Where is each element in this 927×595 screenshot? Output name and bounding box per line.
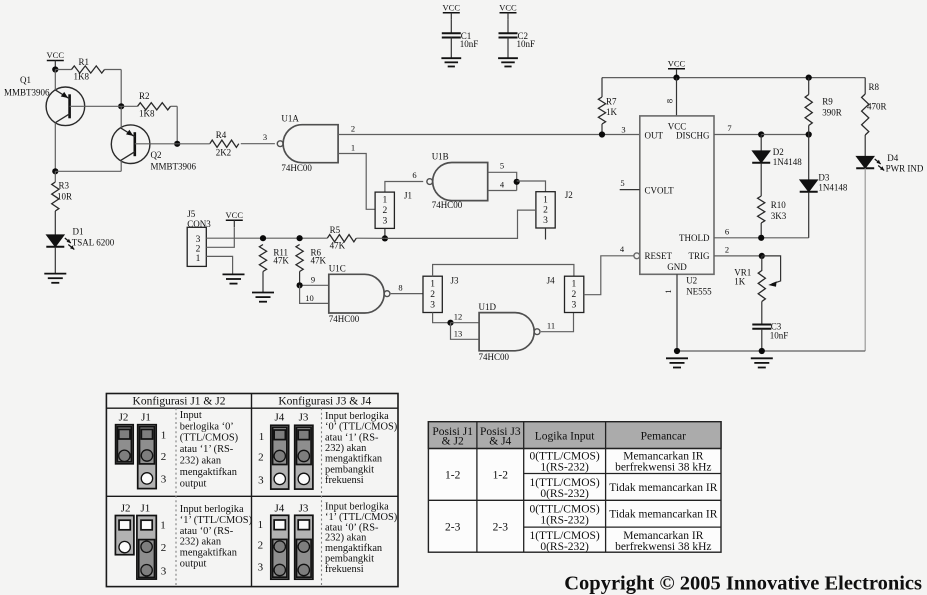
svg-text:TSAL 6200: TSAL 6200 — [72, 238, 115, 248]
diode D1 TSAL 6200 (IR LED) — [46, 227, 114, 250]
jumper graphic J2 cap on 1-2 (row1) — [116, 425, 134, 464]
svg-text:Input berlogika: Input berlogika — [325, 502, 389, 513]
svg-text:1K8: 1K8 — [139, 109, 155, 119]
svg-text:232) akan: 232) akan — [325, 443, 367, 454]
node GND/rail — [674, 348, 680, 354]
pin 12 label — [454, 312, 463, 322]
svg-text:47K: 47K — [273, 256, 289, 266]
svg-text:VCC: VCC — [668, 58, 686, 68]
svg-text:Input berlogika: Input berlogika — [180, 504, 244, 515]
node TRIG/VR1 — [759, 253, 765, 259]
resistor R5 47K — [327, 225, 356, 251]
wire Q2 collector down — [120, 161, 122, 172]
svg-text:2: 2 — [258, 452, 264, 464]
node B (R2/Q2-base/R4) — [174, 141, 180, 147]
wire U1A pin 1 to J1 pin 2 — [338, 154, 375, 210]
ground (below R11) — [252, 293, 274, 302]
svg-text:& J2: & J2 — [442, 436, 464, 448]
svg-text:R3: R3 — [59, 181, 70, 191]
power VCC net symbol (C1) — [443, 2, 461, 20]
svg-text:Q1: Q1 — [20, 75, 31, 85]
svg-text:D1: D1 — [73, 227, 84, 237]
wire node to R3 — [54, 171, 56, 182]
svg-text:470R: 470R — [867, 102, 887, 112]
wire VCC rail — [602, 76, 865, 78]
node J3.3/U1D junction — [447, 320, 453, 326]
pin 3 label — [263, 132, 267, 142]
svg-text:D4: D4 — [887, 153, 898, 163]
svg-text:1N4148: 1N4148 — [818, 183, 847, 193]
wire C2 to ground — [507, 38, 509, 59]
wire R8 to D4 — [864, 135, 866, 156]
svg-text:CON3: CON3 — [187, 219, 211, 229]
svg-text:R9: R9 — [822, 97, 833, 107]
power VCC net symbol (C2) — [499, 2, 517, 20]
svg-text:THOLD: THOLD — [679, 233, 710, 243]
svg-text:J2: J2 — [565, 190, 573, 200]
power VCC net symbol (555) — [668, 58, 686, 75]
node R9/D3 junction — [806, 131, 812, 137]
cell pemancar row4 — [615, 530, 711, 553]
svg-text:2: 2 — [351, 124, 355, 134]
wire R4 to U1A output pin 3 — [241, 143, 275, 145]
jumper J1 3-pin header — [375, 191, 412, 229]
svg-text:MMBT3906: MMBT3906 — [4, 88, 50, 98]
svg-text:R8: R8 — [869, 82, 880, 92]
svg-text:mengaktifkan: mengaktifkan — [325, 543, 383, 554]
cell logika row1 — [529, 451, 599, 474]
cell posisi 2-3 / 2-3 — [445, 522, 508, 534]
svg-text:Input: Input — [180, 410, 202, 421]
svg-text:232) akan: 232) akan — [180, 537, 222, 548]
jumper graphic J3 cap on 2-3 (row2) — [295, 515, 313, 579]
svg-text:1-2: 1-2 — [493, 470, 509, 482]
svg-text:‘1’ (TTL/CMOS): ‘1’ (TTL/CMOS) — [180, 515, 252, 526]
node R10/THOLD junction — [758, 235, 764, 241]
svg-text:2K2: 2K2 — [216, 148, 232, 158]
resistor R4 2K2 — [210, 130, 239, 158]
svg-text:3: 3 — [383, 217, 388, 227]
svg-text:berlogika ‘0’: berlogika ‘0’ — [180, 421, 234, 432]
cell posisi 1-2 / 1-2 — [445, 470, 508, 482]
pin 11 label — [547, 321, 555, 331]
svg-text:6: 6 — [725, 227, 729, 237]
svg-text:232) akan: 232) akan — [325, 533, 367, 544]
wire TRIG node to VR1 — [761, 256, 763, 271]
svg-text:D3: D3 — [818, 173, 829, 183]
wire C3 to ground node — [761, 329, 763, 351]
NAND gate U1D 74HC00 — [479, 302, 540, 362]
wire J5 pin 3 to R5 net — [206, 237, 385, 239]
wire J3 pin 3 to U1D inputs — [433, 313, 451, 323]
svg-text:pembangkit: pembangkit — [325, 554, 374, 565]
ground (below 555 GND) — [666, 358, 688, 367]
svg-text:J5: J5 — [187, 209, 196, 219]
svg-text:berfrekwensi 38 kHz: berfrekwensi 38 kHz — [615, 462, 711, 474]
svg-text:10: 10 — [305, 293, 314, 303]
svg-text:3K3: 3K3 — [771, 211, 787, 221]
labels J2 J1 (row2) — [121, 503, 151, 515]
svg-text:J3: J3 — [451, 276, 460, 286]
header Posisi J1 & J2 — [432, 426, 473, 448]
labels J4 J3 (row1) — [275, 412, 309, 424]
wire D4 to ground rail — [864, 168, 866, 351]
header Posisi J3 & J4 — [480, 426, 521, 448]
svg-text:Copyright © 2005 Innovative El: Copyright © 2005 Innovative Electronics — [564, 573, 922, 595]
jumper graphic J1 cap on 1-2 (row1) — [138, 425, 157, 489]
svg-text:frekuensi: frekuensi — [325, 564, 364, 575]
svg-text:3: 3 — [263, 132, 267, 142]
diode D2 1N4148 — [752, 147, 802, 167]
wire VCC to J5 pin 2 — [206, 227, 234, 247]
svg-text:11: 11 — [547, 321, 555, 331]
wire U1C output pin 8 to J3 pin 2 — [391, 293, 423, 295]
cell logika row3 — [529, 504, 599, 527]
svg-text:VCC: VCC — [47, 50, 65, 60]
pin 6 label — [725, 227, 729, 237]
svg-text:atau ‘0’ (RS-: atau ‘0’ (RS- — [325, 522, 379, 533]
wire R3 to D1 — [54, 211, 56, 235]
wire VCC to C2 — [507, 20, 509, 33]
ground (below D1) — [44, 274, 66, 283]
wire node A to R2 — [121, 105, 137, 107]
svg-text:74HC00: 74HC00 — [479, 352, 510, 362]
wire node to U1D pin 13 — [451, 323, 480, 340]
svg-text:3: 3 — [161, 474, 167, 486]
svg-text:1(RS-232): 1(RS-232) — [540, 515, 589, 527]
svg-text:8: 8 — [665, 99, 675, 103]
wire DISCHG pin 7 to D2 node — [714, 134, 761, 136]
svg-text:J2: J2 — [121, 503, 131, 515]
node VCC/pin8 — [673, 75, 679, 81]
ground (below J5 pin1) — [223, 274, 245, 283]
svg-text:2: 2 — [161, 451, 167, 463]
timer U2 NE555 body — [640, 116, 714, 297]
svg-text:GND: GND — [667, 262, 687, 272]
capacitor C3 10nF — [752, 322, 788, 341]
wire U1B pin 4 — [488, 190, 517, 192]
svg-text:232) akan: 232) akan — [180, 456, 222, 467]
svg-text:1: 1 — [430, 280, 435, 290]
svg-text:1: 1 — [160, 520, 166, 532]
transistor Q1 MMBT3906 — [4, 75, 85, 126]
pin 2 label — [351, 124, 355, 134]
svg-text:‘1’ (TTL/CMOS): ‘1’ (TTL/CMOS) — [325, 512, 397, 523]
svg-text:J2: J2 — [119, 412, 129, 424]
svg-text:Q2: Q2 — [151, 150, 162, 160]
svg-text:Konfigurasi J3 & J4: Konfigurasi J3 & J4 — [278, 396, 371, 408]
jumper graphic J3 cap on 1-2 (row1) — [295, 425, 313, 489]
svg-text:Pemancar: Pemancar — [641, 431, 687, 443]
wire TRIG pin 2 line — [714, 255, 762, 257]
capacitor C2 10nF — [499, 31, 536, 49]
config table outer frame — [106, 394, 398, 587]
svg-text:74HC00: 74HC00 — [329, 314, 360, 324]
svg-text:VCC: VCC — [499, 2, 517, 12]
pin 8 label (rotated) — [665, 99, 675, 103]
svg-text:U1B: U1B — [432, 152, 449, 162]
labels J4 J3 (row2) — [275, 503, 309, 515]
svg-text:1-2: 1-2 — [445, 470, 461, 482]
cell pemancar row3 — [609, 509, 717, 521]
svg-text:2: 2 — [161, 542, 167, 554]
svg-text:1K8: 1K8 — [74, 72, 90, 82]
ground (below C2) — [498, 58, 518, 66]
resistor R3 10R — [52, 181, 72, 211]
wire D2 top — [760, 135, 762, 151]
svg-text:1: 1 — [259, 431, 265, 443]
pin 10 label — [305, 293, 314, 303]
pin 3 label (OUT) — [621, 125, 625, 135]
svg-text:0(RS-232): 0(RS-232) — [540, 541, 589, 553]
svg-text:pembangkit: pembangkit — [325, 464, 374, 475]
svg-text:CVOLT: CVOLT — [645, 185, 675, 195]
svg-text:U1A: U1A — [281, 114, 299, 124]
pin 1 label (rotated) — [663, 289, 673, 293]
svg-text:2: 2 — [383, 206, 388, 216]
wire R6 bottom to U1C pin 9 — [300, 272, 329, 286]
jumper graphic J1 cap on 2-3 (row2) — [137, 516, 156, 580]
svg-text:3: 3 — [543, 216, 548, 226]
wire U1B output pin 6 to J1 pin 1 — [385, 182, 423, 193]
svg-text:atau ‘0’ (RS-: atau ‘0’ (RS- — [180, 526, 234, 537]
wire pins4-5 to J2 pin 1 — [517, 181, 546, 192]
svg-text:PWR IND: PWR IND — [886, 164, 924, 174]
svg-text:J1: J1 — [141, 412, 151, 424]
resistor R8 470R — [862, 82, 887, 135]
svg-text:1: 1 — [572, 280, 577, 290]
pin numbers 1 2 3 (row2 right) — [258, 519, 264, 574]
transistor Q2 MMBT3906 — [111, 125, 196, 172]
text row1 left — [180, 410, 238, 490]
node R7/OUT junction — [599, 131, 605, 137]
header Konfigurasi J1 & J2 — [133, 396, 226, 408]
svg-text:J4: J4 — [547, 276, 556, 286]
wire C1 to ground — [450, 38, 452, 59]
pin numbers 1 2 3 (row2 left) — [160, 520, 167, 578]
svg-text:J1: J1 — [404, 191, 412, 201]
svg-text:10nF: 10nF — [460, 39, 479, 49]
cell logika row4 — [529, 530, 599, 553]
wire Q1 emitter up to VCC node — [54, 70, 56, 90]
ground (below C1) — [441, 58, 461, 66]
svg-text:J3: J3 — [299, 503, 309, 515]
pin 13 label — [454, 328, 463, 338]
wire node to R1 — [55, 69, 71, 71]
wire R7 to OUT line — [601, 124, 603, 135]
wire node to U1C pin 10 — [300, 285, 329, 303]
wire Q2 base to node B — [135, 143, 177, 145]
svg-text:10nF: 10nF — [517, 39, 536, 49]
power VCC net symbol (J5) — [226, 210, 244, 227]
wire U1A pin 2 to 555 OUT — [338, 134, 640, 136]
wire THOLD pin 6 line — [714, 237, 809, 239]
svg-text:J4: J4 — [275, 503, 285, 515]
svg-text:berfrekwensi 38 kHz: berfrekwensi 38 kHz — [615, 541, 711, 553]
svg-text:1N4148: 1N4148 — [773, 157, 802, 167]
capacitor C1 10nF — [442, 31, 479, 49]
text row1 right — [325, 411, 397, 486]
text row2 left — [180, 504, 252, 570]
wire collector rail — [55, 170, 121, 172]
resistor R2 1K8 — [138, 91, 171, 119]
svg-text:1: 1 — [196, 254, 201, 264]
wire node to U1D pin 12 — [451, 322, 480, 324]
svg-text:5: 5 — [500, 161, 504, 171]
svg-text:(TTL/CMOS): (TTL/CMOS) — [180, 433, 238, 444]
wire node B to R4 — [177, 143, 210, 145]
wire D3 to THOLD line — [808, 193, 810, 238]
555 RESET bubble — [634, 253, 640, 259]
wire R2 to node B — [171, 106, 178, 144]
svg-text:0(RS-232): 0(RS-232) — [540, 488, 589, 500]
cell pemancar row2 — [609, 482, 717, 494]
node A (R1/R2/Q1-base/Q2-emitter) — [118, 103, 124, 109]
jumper J2 3-pin header — [536, 190, 573, 228]
svg-text:R5: R5 — [330, 225, 341, 235]
wire Q1 collector down — [54, 123, 56, 172]
node C3/rail — [759, 348, 765, 354]
svg-text:Konfigurasi J1 & J2: Konfigurasi J1 & J2 — [133, 396, 226, 408]
svg-text:U1D: U1D — [479, 302, 497, 312]
wire R11 to ground — [262, 272, 264, 293]
pin 7 label — [727, 123, 731, 133]
svg-text:DISCHG: DISCHG — [676, 130, 710, 140]
node VCC/R1/Q1-emitter junction — [52, 66, 58, 72]
svg-text:3: 3 — [572, 301, 577, 311]
svg-text:390R: 390R — [822, 108, 842, 118]
svg-text:3: 3 — [196, 235, 201, 245]
svg-text:Tidak memancarkan IR: Tidak memancarkan IR — [609, 509, 717, 521]
NAND gate U1B 74HC00 — [427, 152, 488, 211]
svg-text:2-3: 2-3 — [445, 522, 461, 534]
header Logika Input — [535, 431, 596, 443]
svg-text:mengaktifkan: mengaktifkan — [180, 548, 238, 559]
node Q1-collector/R3 junction — [52, 168, 58, 174]
svg-text:mengaktifkan: mengaktifkan — [325, 454, 383, 465]
pin 5 label — [500, 161, 504, 171]
wire ground rail — [677, 350, 865, 352]
wire R1 to node A — [105, 70, 122, 107]
svg-text:12: 12 — [454, 312, 463, 322]
power VCC net symbol (Q1 emitter) — [47, 50, 65, 67]
node R6 top — [297, 235, 303, 241]
svg-text:1: 1 — [351, 143, 355, 153]
header Konfigurasi J3 & J4 — [278, 396, 371, 408]
svg-text:2: 2 — [430, 290, 435, 300]
svg-text:R1: R1 — [79, 57, 90, 67]
jumper graphic J4 cap on 1-2 (row1) — [271, 425, 289, 489]
pin numbers 1 2 3 (row1 right) — [258, 431, 264, 487]
resistor R6 47K — [296, 245, 327, 272]
svg-text:8: 8 — [398, 283, 402, 293]
svg-text:3: 3 — [430, 301, 435, 311]
resistor R1 1K8 — [72, 57, 105, 82]
pin 2 label (TRIG) — [725, 245, 729, 255]
svg-text:NE555: NE555 — [686, 287, 712, 297]
pin 5 label — [620, 178, 624, 188]
svg-text:J4: J4 — [275, 412, 285, 424]
svg-text:Tidak memancarkan IR: Tidak memancarkan IR — [609, 482, 717, 494]
jumper graphic J2 open (row2) — [115, 516, 133, 555]
svg-text:7: 7 — [727, 123, 731, 133]
wire J5 pin 1 to ground — [206, 256, 232, 274]
logic table frame — [428, 422, 721, 553]
svg-text:74HC00: 74HC00 — [281, 163, 312, 173]
svg-text:U2: U2 — [686, 276, 697, 286]
svg-text:Logika Input: Logika Input — [535, 431, 596, 443]
svg-text:1: 1 — [663, 289, 673, 293]
copyright text — [564, 573, 922, 595]
svg-text:1(RS-232): 1(RS-232) — [540, 462, 589, 474]
svg-text:output: output — [180, 479, 207, 490]
svg-text:3: 3 — [258, 475, 264, 487]
svg-text:13: 13 — [454, 328, 463, 338]
labels J2 J1 (row1) — [119, 412, 151, 424]
svg-text:47K: 47K — [330, 241, 346, 251]
svg-text:74HC00: 74HC00 — [432, 200, 463, 210]
svg-text:‘0’ (TTL/CMOS): ‘0’ (TTL/CMOS) — [325, 422, 397, 433]
node R11 top — [260, 235, 266, 241]
pin 8 label — [398, 283, 402, 293]
wire J3 pin1 to J4 pin1 — [433, 265, 574, 277]
svg-text:VCC: VCC — [226, 210, 244, 220]
wire J2 pin 2 to R5 net — [385, 210, 536, 238]
svg-text:RESET: RESET — [645, 251, 673, 261]
pin 4 label — [500, 180, 505, 190]
wire 555 GND pin 1 stub — [676, 274, 678, 351]
wire D3 top — [808, 135, 810, 180]
resistor R10 3K3 — [758, 196, 787, 223]
svg-text:frekuensi: frekuensi — [325, 475, 364, 486]
svg-text:10nF: 10nF — [770, 331, 789, 341]
trimmer VR1 1K — [734, 256, 780, 302]
svg-text:R7: R7 — [606, 97, 617, 107]
svg-text:R10: R10 — [771, 200, 787, 210]
cell pemancar row1 — [615, 451, 711, 474]
wire Q1 base to node A — [70, 105, 122, 107]
wire 555 pin 8 stub — [676, 78, 678, 116]
svg-text:TRIG: TRIG — [689, 251, 710, 261]
resistor R7 1K — [598, 97, 617, 125]
wire D2 to R10 — [760, 164, 762, 196]
svg-text:Input berlogika: Input berlogika — [325, 411, 389, 422]
svg-text:9: 9 — [311, 275, 315, 285]
text row2 right — [325, 502, 397, 575]
resistor R9 390R — [805, 95, 842, 126]
ground (below C3) — [751, 358, 773, 367]
svg-text:mengaktifkan: mengaktifkan — [180, 467, 238, 478]
svg-text:1K: 1K — [606, 107, 618, 117]
svg-text:10R: 10R — [57, 192, 72, 202]
svg-text:& J4: & J4 — [489, 436, 511, 448]
svg-text:2: 2 — [572, 290, 577, 300]
wire U1D output pin 11 to J4 pin 3 — [541, 313, 574, 332]
header Pemancar — [641, 431, 687, 443]
svg-text:MMBT3906: MMBT3906 — [151, 162, 197, 172]
diode D4 PWR IND (LED) — [856, 153, 924, 174]
svg-text:5: 5 — [620, 178, 624, 188]
svg-text:3: 3 — [258, 562, 264, 574]
wire J1 pin 3 to R5 net — [384, 228, 386, 238]
node VCC/R9 — [806, 75, 812, 81]
svg-text:2-3: 2-3 — [493, 522, 509, 534]
wire J4 pin 2 to 555 RESET — [584, 256, 634, 295]
svg-text:6: 6 — [412, 170, 416, 180]
wire D1 to ground — [54, 247, 56, 274]
svg-text:output: output — [180, 559, 207, 570]
resistor R11 47K — [259, 245, 289, 272]
